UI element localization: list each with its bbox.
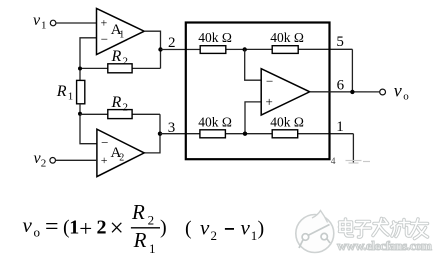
svg-text:40k Ω: 40k Ω	[198, 115, 232, 130]
node 3	[158, 120, 176, 136]
svg-text:v: v	[23, 213, 33, 237]
node 5	[336, 34, 344, 50]
svg-text:+: +	[101, 153, 108, 167]
watermark logo	[296, 211, 334, 253]
wire R2 top feedback branch	[80, 67, 161, 69]
wire R2 bottom feedback branch	[80, 113, 160, 115]
resistor R1	[56, 80, 85, 103]
wire node 5 to node 6	[351, 49, 353, 92]
terminal vo	[380, 81, 410, 103]
wire U1 output node 6 to output terminal	[310, 91, 380, 93]
svg-text:1: 1	[41, 20, 47, 32]
svg-text:R: R	[131, 200, 145, 224]
svg-text:40k Ω: 40k Ω	[198, 30, 232, 45]
op-amp U1 (internal)	[261, 69, 310, 115]
junction A2 inverting node	[78, 112, 82, 116]
wire A2 output to node 3	[144, 114, 160, 153]
svg-text:o: o	[403, 90, 409, 102]
terminal v1	[33, 12, 56, 32]
svg-text:2: 2	[41, 157, 47, 169]
resistor 40k (bottom-right)	[270, 115, 304, 138]
junction A1 inverting node	[78, 67, 82, 71]
svg-text:1: 1	[69, 217, 79, 239]
resistor R2 (bottom)	[108, 94, 132, 119]
wire A1 inverting input	[80, 38, 97, 81]
resistor 40k (top-left)	[198, 30, 232, 53]
junction bottom row	[243, 132, 247, 136]
svg-text:−: −	[101, 135, 108, 150]
svg-text:−: −	[266, 74, 273, 89]
svg-text:6: 6	[337, 77, 345, 93]
wire node 3 row (bottom row through box)	[160, 133, 353, 135]
node 2	[158, 35, 175, 52]
svg-text:1: 1	[336, 119, 344, 135]
svg-text:2: 2	[119, 153, 124, 164]
wire A1 output to node 2	[144, 31, 160, 68]
wire v1 to A1 + input	[56, 22, 97, 24]
svg-text:): )	[160, 217, 167, 239]
svg-text:2: 2	[148, 213, 155, 228]
svg-text:−: −	[101, 32, 108, 47]
watermark text 电子发烧友 (hand-drawn faint strokes)	[340, 219, 428, 239]
node 1	[336, 119, 344, 135]
op-amp A1	[97, 9, 145, 55]
svg-text:1: 1	[119, 30, 124, 41]
junction top row	[243, 47, 247, 51]
wire R1 bottom to A2 inverting input	[80, 104, 97, 144]
ground (faded)	[346, 161, 371, 164]
svg-text:(: (	[185, 218, 192, 240]
terminal v2	[34, 150, 56, 169]
svg-text:v: v	[394, 81, 402, 101]
svg-text:4: 4	[331, 157, 336, 167]
svg-text:2: 2	[168, 35, 176, 51]
svg-text:www.elecfans.com: www.elecfans.com	[337, 238, 432, 253]
IC box	[186, 23, 330, 160]
svg-text:R: R	[111, 94, 122, 111]
svg-text:v: v	[241, 216, 251, 240]
svg-text:+: +	[266, 94, 273, 109]
svg-text:40k Ω: 40k Ω	[270, 115, 304, 130]
wire v2 to A2 + input	[56, 159, 97, 161]
resistor R2 (top)	[108, 48, 132, 73]
resistor 40k (bottom-left)	[198, 115, 232, 138]
svg-text:v: v	[200, 216, 210, 240]
svg-text:5: 5	[336, 34, 344, 50]
node 6	[337, 77, 355, 94]
formula vo = (1 + 2 x R2/R1)(v2 - v1)	[23, 200, 265, 256]
wire bottom junction to U1 non-inverting input	[245, 102, 261, 134]
svg-text:R: R	[56, 83, 67, 100]
svg-text:1: 1	[68, 91, 74, 103]
resistor 40k (top-right)	[270, 30, 304, 53]
svg-text:=: =	[45, 214, 59, 240]
svg-text:R: R	[111, 48, 122, 65]
svg-text:): )	[258, 218, 265, 240]
svg-text:2: 2	[211, 228, 218, 243]
svg-text:R: R	[133, 228, 147, 252]
svg-text:2: 2	[123, 56, 129, 68]
wire top junction to U1 inverting input	[245, 50, 262, 81]
svg-text:1: 1	[251, 228, 257, 243]
svg-text:40k Ω: 40k Ω	[270, 30, 304, 45]
svg-text:o: o	[34, 224, 41, 239]
wire node 1 down to ground	[352, 134, 354, 163]
svg-text:×: ×	[110, 215, 124, 242]
svg-text:v: v	[33, 12, 41, 29]
svg-text:+: +	[79, 216, 92, 241]
op-amp A2	[97, 129, 144, 176]
svg-text:2: 2	[123, 101, 129, 113]
svg-text:+: +	[101, 16, 108, 30]
svg-text:1: 1	[149, 241, 156, 256]
wire node 2 row (top row through box)	[161, 48, 353, 50]
svg-text:2: 2	[97, 217, 107, 239]
